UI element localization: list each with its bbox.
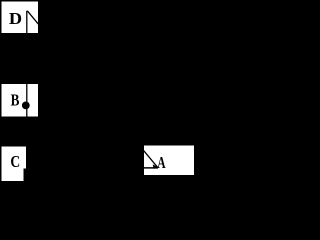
svg-text:A: A [157, 153, 165, 172]
svg-text:C: C [10, 152, 20, 171]
svg-text:D: D [9, 9, 22, 28]
svg-text:B: B [11, 91, 20, 110]
